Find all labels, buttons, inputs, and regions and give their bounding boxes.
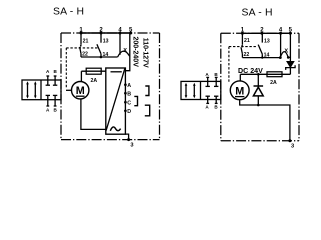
valve arrow 1 right	[185, 83, 188, 99]
svg-text:13: 13	[103, 38, 109, 44]
connector bracket X4 lower right	[145, 105, 150, 116]
node junction contact14/wire right	[261, 56, 263, 58]
svg-text:D: D	[127, 109, 131, 115]
svg-text:M: M	[235, 85, 244, 97]
wire from contacts to link left	[81, 56, 118, 58]
terminal 5 right	[289, 32, 292, 35]
svg-text:X: X	[284, 48, 288, 54]
terminal 3 left	[127, 138, 130, 141]
motor M1 right	[230, 81, 249, 100]
svg-text:C: C	[127, 100, 131, 106]
mechanical coupling dashed link right	[229, 47, 258, 83]
node junction diode bottom right	[257, 104, 260, 107]
board pin D left	[124, 109, 127, 112]
terminal 4 left	[119, 32, 122, 35]
freewheel diode D2 right	[253, 74, 263, 105]
svg-text:M: M	[76, 85, 85, 97]
board pin B left	[124, 92, 127, 95]
node junction terminal4/wire right	[279, 56, 282, 59]
plug contact A right valve	[206, 77, 210, 103]
svg-text:110-127V: 110-127V	[141, 38, 148, 68]
valve attachment symbol right	[181, 81, 221, 99]
svg-text:3: 3	[130, 142, 133, 148]
wire board to terminal 3 left	[125, 134, 128, 140]
valve arrow 2 left	[34, 81, 37, 98]
terminal 2 right	[260, 32, 263, 35]
svg-text:SA - H: SA - H	[242, 7, 273, 18]
switch S2 contact 13-14 right	[258, 33, 262, 57]
terminal 3 right	[288, 139, 291, 142]
voltage link X jumper arc left	[118, 51, 130, 57]
terminal 1 right	[241, 32, 244, 35]
fuse F1 2A left	[81, 70, 105, 72]
terminal 1 left	[80, 32, 83, 35]
terminal 5 left	[129, 32, 132, 35]
plug contact B left valve	[53, 76, 57, 106]
coupling stub to motor left	[66, 89, 71, 91]
mechanical coupling dashed link left	[66, 48, 97, 88]
actuator boundary right (dash-dot border)	[221, 33, 299, 140]
plug contact A left valve	[46, 76, 50, 106]
svg-text:X: X	[123, 48, 127, 54]
svg-text:21: 21	[244, 38, 250, 44]
svg-text:3: 3	[291, 144, 294, 150]
connector bracket X2 middle	[134, 96, 137, 105]
wire bus to motor right	[239, 74, 241, 81]
wire terminal 5 right	[289, 33, 291, 57]
plug contact B right valve	[214, 77, 218, 103]
board pin C left	[124, 101, 127, 104]
wire arc to diode right	[288, 57, 290, 61]
control board U1 left	[106, 68, 126, 134]
node junction contact 14 / wire	[100, 56, 103, 59]
voltage link X jumper arc right	[280, 52, 288, 58]
svg-text:200-240V: 200-240V	[131, 37, 138, 68]
switch S2 contact 13-14 left	[97, 33, 101, 57]
svg-text:SA - H: SA - H	[53, 7, 84, 18]
wire motor bottom right	[240, 100, 290, 141]
terminal 2 left	[100, 32, 103, 35]
fuse F1 2A right	[267, 72, 282, 77]
valve attachment symbol left	[22, 80, 61, 100]
diode D1 zener right	[286, 62, 295, 75]
terminal bus wire 1-5 left	[81, 32, 131, 34]
svg-text:2A: 2A	[90, 78, 97, 84]
svg-text:2A: 2A	[270, 80, 277, 86]
wire terminal 4 stub left	[119, 33, 121, 55]
node arc end right	[287, 56, 290, 59]
switch S1 contact 21-22 left	[80, 33, 82, 57]
actuator boundary left (dash-dot border)	[61, 33, 160, 140]
valve arrow 2 right	[193, 83, 196, 99]
svg-text:13: 13	[264, 39, 270, 45]
svg-text:B: B	[127, 91, 131, 97]
switch S1 contact 21-22 right	[241, 33, 243, 57]
terminal bus wire 1-5 right	[242, 32, 290, 34]
wire terminal 4 right	[280, 33, 282, 57]
wire DC bus right	[240, 73, 290, 75]
motor M1 left	[72, 82, 89, 99]
valve arrow 1 left	[26, 81, 29, 98]
node junction diode top right	[257, 73, 260, 76]
wire motor bottom to board left	[81, 99, 106, 129]
board pin A left	[124, 83, 127, 86]
wire contacts row right	[242, 57, 280, 59]
svg-text:21: 21	[83, 39, 89, 45]
terminal 4 right	[279, 32, 282, 35]
connector bracket X3 upper right	[145, 86, 149, 96]
wire fuse to motor left	[80, 71, 82, 81]
svg-text:A: A	[127, 83, 131, 89]
wire terminal 5 to board left	[125, 33, 129, 71]
